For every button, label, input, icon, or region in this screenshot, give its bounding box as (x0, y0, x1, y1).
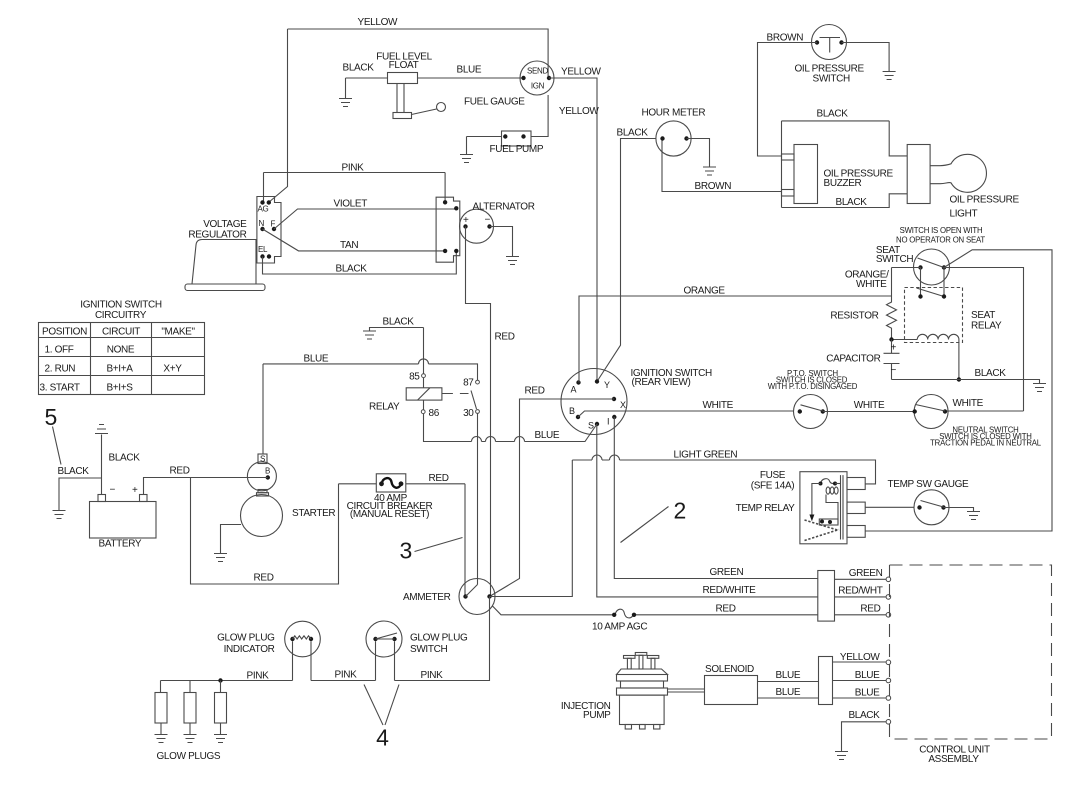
wire PINK (switch to ammeter) (395, 597, 490, 682)
svg-text:TAN: TAN (340, 240, 358, 251)
svg-text:RED: RED (495, 332, 515, 343)
svg-text:A: A (571, 385, 577, 395)
ground (glow plug 3) (214, 735, 227, 743)
svg-text:FLOAT: FLOAT (389, 60, 419, 71)
svg-text:PINK: PINK (421, 670, 444, 681)
wire VIOLET (F terminal to alternator) (274, 199, 456, 230)
temp relay coil (826, 487, 838, 524)
svg-text:(REAR VIEW): (REAR VIEW) (632, 377, 691, 388)
svg-text:GLOW PLUG: GLOW PLUG (410, 633, 468, 644)
ground (oil switch) (883, 72, 896, 80)
wire BLUE (solenoid bottom) (758, 687, 819, 698)
svg-text:YELLOW: YELLOW (559, 106, 599, 117)
svg-text:CIRCUITRY: CIRCUITRY (95, 310, 147, 321)
svg-text:FUEL GAUGE: FUEL GAUGE (464, 97, 525, 108)
svg-text:ORANGE: ORANGE (684, 286, 726, 297)
voltage regulator body (185, 219, 265, 291)
svg-text:BLUE: BLUE (535, 430, 560, 441)
label WHITE right of neutral switch (953, 398, 984, 409)
svg-text:X: X (620, 400, 626, 410)
relay (369, 328, 479, 420)
connector block (solenoid harness) (819, 657, 833, 705)
callout 5 (45, 404, 62, 465)
svg-text:SOLENOID: SOLENOID (705, 664, 754, 675)
resistor (830, 268, 896, 340)
seat relay contacts (917, 268, 947, 299)
seat relay (dashed box) (905, 288, 1002, 343)
oil pressure buzzer (782, 145, 894, 204)
ground (relay 85) (363, 331, 376, 339)
ground (control unit) (835, 752, 848, 760)
svg-text:B+I+S: B+I+S (106, 383, 133, 394)
glow plug 1 (155, 681, 167, 735)
node Y (595, 379, 610, 390)
svg-text:WHITE: WHITE (856, 279, 887, 290)
svg-text:WHITE: WHITE (854, 400, 885, 411)
svg-text:−: − (110, 485, 116, 496)
voltage regulator connector (left) (257, 197, 281, 264)
glow plug indicator (217, 621, 320, 680)
svg-text:STARTER: STARTER (292, 508, 335, 519)
wire buzzer to light top (889, 121, 907, 156)
svg-text:3: 3 (400, 538, 413, 564)
svg-text:FUSE: FUSE (760, 470, 786, 481)
ammeter (403, 579, 495, 615)
starter solenoid (247, 364, 276, 496)
svg-text:PINK: PINK (342, 163, 365, 174)
node I (607, 415, 617, 427)
oil pressure light (907, 145, 1019, 220)
ground (battery negative) (95, 425, 108, 434)
svg-text:BLACK: BLACK (848, 710, 880, 721)
svg-text:WHITE: WHITE (703, 400, 734, 411)
svg-text:RED: RED (429, 473, 449, 484)
wire YELLOW (ignition feed, top) (288, 17, 549, 78)
wire seat switch to temp relay (outer loop) (865, 250, 1052, 531)
wire RED (battery to circuit breaker loop) (191, 478, 339, 585)
solenoid (705, 664, 758, 705)
svg-text:VIOLET: VIOLET (334, 199, 368, 210)
svg-text:BLACK: BLACK (617, 128, 649, 139)
svg-text:"MAKE": "MAKE" (161, 327, 195, 338)
fuel level float (376, 52, 445, 119)
wire BLACK (buzzer top) (782, 109, 890, 208)
svg-text:B+I+A: B+I+A (106, 364, 133, 375)
svg-text:AMMETER: AMMETER (403, 592, 451, 603)
temp relay (736, 470, 866, 544)
svg-text:TRACTION PEDAL IN NEUTRAL: TRACTION PEDAL IN NEUTRAL (930, 439, 1042, 448)
svg-text:RED/WHITE: RED/WHITE (703, 585, 757, 596)
hour meter (642, 108, 706, 157)
svg-text:LIGHT: LIGHT (950, 209, 978, 220)
svg-text:WITH P.T.O. DISINGAGED: WITH P.T.O. DISINGAGED (768, 382, 858, 391)
svg-text:GREEN: GREEN (710, 567, 744, 578)
wire ORANGE/WHITE (seat switch to resistor node) (845, 268, 921, 291)
callout 2 (621, 498, 687, 543)
svg-text:TEMP RELAY: TEMP RELAY (736, 503, 796, 514)
wire BLACK (relay 85 ground) (370, 317, 424, 331)
node X (612, 397, 626, 410)
ground (alternator) (506, 257, 519, 265)
svg-text:2: 2 (674, 498, 687, 524)
wire BLACK (seat relay to ground) (892, 368, 1040, 384)
svg-text:RELAY: RELAY (369, 402, 400, 413)
svg-text:FUEL PUMP: FUEL PUMP (490, 144, 544, 155)
svg-text:YELLOW: YELLOW (358, 17, 398, 28)
wire BLACK (battery negative to ground) (102, 435, 141, 495)
temp sw gauge (888, 479, 970, 525)
ground (glow plug 2) (184, 735, 197, 743)
injection pump (561, 653, 668, 730)
wire yellow drop to regulator AG pin (269, 29, 288, 203)
svg-text:4: 4 (376, 725, 389, 751)
wire RED (alternator + down to ammeter) (466, 227, 515, 597)
svg-text:1. OFF: 1. OFF (45, 345, 74, 356)
wire BLACK (control unit ground) (842, 710, 891, 752)
svg-text:RED: RED (525, 386, 545, 397)
svg-text:RESISTOR: RESISTOR (830, 311, 878, 322)
svg-text:SEND: SEND (527, 67, 549, 76)
wire LIGHT GREEN (ammeter to temp relay) (490, 450, 876, 597)
svg-text:BLACK: BLACK (58, 466, 90, 477)
node B (569, 406, 580, 419)
svg-text:85: 85 (409, 372, 420, 383)
svg-text:PINK: PINK (335, 670, 358, 681)
fuel gauge (464, 61, 554, 108)
wire YELLOW to control unit (833, 652, 891, 665)
wire temp relay to temp gauge (865, 506, 914, 508)
ignition switch (rear view) (561, 368, 712, 435)
svg-text:BLUE: BLUE (776, 670, 801, 681)
ground (starter) (214, 554, 227, 562)
svg-text:GLOW PLUG: GLOW PLUG (217, 633, 275, 644)
svg-text:I: I (607, 417, 609, 427)
wire BLUE to control unit (lower) (833, 688, 891, 701)
svg-text:IGN: IGN (531, 82, 545, 91)
svg-text:IGNITION SWITCH: IGNITION SWITCH (80, 300, 162, 311)
svg-text:RED: RED (716, 604, 736, 615)
wire PINK (regulator to alternator connector) (264, 163, 446, 203)
wire GREEN (ignition I to control unit) (614, 417, 818, 579)
svg-text:3. START: 3. START (40, 383, 80, 394)
wire RED (battery + to starter B) (144, 466, 268, 495)
svg-text:BLUE: BLUE (776, 687, 801, 698)
svg-text:BLUE: BLUE (457, 65, 482, 76)
label glow plugs (157, 751, 221, 762)
svg-text:(SFE 14A): (SFE 14A) (751, 481, 795, 492)
alternator (460, 202, 535, 244)
callout 4 (364, 685, 399, 751)
svg-text:LIGHT GREEN: LIGHT GREEN (674, 450, 738, 461)
control unit assembly (dashed box) (890, 565, 1052, 765)
wire BLACK (fuel sender ground) (343, 63, 388, 99)
svg-text:BLACK: BLACK (383, 317, 415, 328)
wire ORANGE (seat circuit to ignition A) (579, 286, 892, 383)
svg-text:RED/WHT: RED/WHT (838, 586, 882, 597)
svg-text:YELLOW: YELLOW (840, 652, 880, 663)
svg-text:+: + (891, 343, 897, 354)
svg-text:SWITCH: SWITCH (813, 74, 850, 85)
svg-text:+: + (132, 485, 138, 496)
svg-text:B: B (265, 467, 270, 476)
svg-text:GLOW PLUGS: GLOW PLUGS (157, 751, 221, 762)
svg-text:NONE: NONE (107, 345, 135, 356)
node A (571, 380, 581, 394)
seat relay coil (889, 334, 961, 381)
svg-text:BUZZER: BUZZER (824, 178, 862, 189)
svg-text:SWITCH: SWITCH (410, 644, 447, 655)
ground (hour meter) (703, 167, 716, 175)
svg-text:2. RUN: 2. RUN (45, 364, 76, 375)
wire alternator minus to ground (490, 227, 513, 257)
svg-text:SWITCH IS OPEN WITH: SWITCH IS OPEN WITH (900, 226, 983, 235)
wire RED with 10 AMP AGC fuse (ammeter to control unit) (493, 604, 818, 633)
wire GREEN stub to control unit (835, 568, 891, 582)
svg-text:CIRCUIT: CIRCUIT (102, 327, 140, 338)
wire breaker to ammeter (464, 484, 466, 597)
wire PINK (glow plugs to indicator) (161, 671, 293, 683)
svg-text:BLACK: BLACK (109, 453, 141, 464)
wire BLUE to control unit (upper) (833, 670, 891, 683)
wire temp gauge to ground (944, 508, 974, 512)
svg-text:ASSEMBLY: ASSEMBLY (928, 754, 979, 765)
temp relay fuse (819, 479, 841, 486)
ground (glow plug 1) (155, 735, 168, 743)
wire BLACK (chassis ground lead) (58, 466, 102, 511)
svg-text:RED: RED (170, 466, 190, 477)
wire BROWN (hour meter to buzzer) (662, 139, 782, 193)
svg-text:BLACK: BLACK (836, 197, 868, 208)
svg-text:Y: Y (604, 380, 610, 390)
svg-text:NO OPERATOR ON SEAT: NO OPERATOR ON SEAT (896, 236, 985, 245)
injection pump link (668, 689, 705, 692)
svg-text:CAPACITOR: CAPACITOR (826, 354, 880, 365)
wire BROWN (oil switch to buzzer) (758, 33, 818, 157)
svg-text:10 AMP AGC: 10 AMP AGC (592, 622, 647, 633)
wire hour meter to ground (687, 139, 710, 168)
ground (seat relay) (1033, 384, 1046, 392)
svg-text:TEMP SW GAUGE: TEMP SW GAUGE (888, 479, 970, 490)
svg-text:BLUE: BLUE (855, 688, 880, 699)
wire WHITE (PTO to neutral switch) (823, 400, 915, 412)
svg-text:ALTERNATOR: ALTERNATOR (473, 202, 535, 213)
wire oil switch to ground (842, 43, 890, 72)
svg-text:BLACK: BLACK (343, 63, 375, 74)
svg-text:N: N (259, 219, 265, 228)
wire starter to ground (221, 525, 242, 554)
svg-text:BLACK: BLACK (817, 109, 849, 120)
svg-text:AG: AG (258, 205, 269, 214)
wire BLACK (regulator EL to alternator) (263, 251, 457, 275)
svg-text:BROWN: BROWN (767, 33, 804, 44)
PTO switch (768, 369, 858, 429)
svg-text:INDICATOR: INDICATOR (224, 644, 275, 655)
wire seat switch to neutral switch (right loop) (944, 268, 1024, 412)
svg-text:BLUE: BLUE (304, 354, 329, 365)
svg-text:HOUR METER: HOUR METER (642, 108, 706, 119)
svg-text:PUMP: PUMP (583, 710, 611, 721)
ground (chassis) (53, 511, 66, 519)
oil pressure switch (795, 25, 865, 85)
wire RED/WHT stub to control unit (835, 586, 891, 600)
wire RED/WHITE (ignition S to control unit) (597, 424, 818, 597)
svg-text:RELAY: RELAY (971, 321, 1002, 332)
capacitor (826, 340, 899, 380)
svg-text:+: + (463, 215, 469, 226)
svg-text:SEAT: SEAT (971, 310, 995, 321)
wire BLUE (relay 85 feed from starter S) (263, 354, 478, 381)
svg-text:POSITION: POSITION (42, 327, 87, 338)
svg-text:X+Y: X+Y (163, 364, 182, 375)
svg-text:BROWN: BROWN (695, 181, 732, 192)
svg-text:5: 5 (45, 404, 58, 430)
connector block (gauge harness) (818, 571, 835, 622)
svg-text:BLACK: BLACK (336, 264, 368, 275)
svg-text:RED: RED (254, 573, 274, 584)
svg-text:SWITCH: SWITCH (876, 254, 913, 265)
svg-text:BLUE: BLUE (855, 670, 880, 681)
svg-text:PINK: PINK (247, 671, 270, 682)
wire TAN (N terminal to alternator) (263, 229, 446, 251)
callout 3 (400, 538, 463, 564)
wire BLACK (hour meter to ignition Y) (597, 128, 656, 382)
node S (588, 421, 599, 431)
temp relay contacts (805, 519, 840, 541)
starter motor (241, 495, 336, 537)
wire BLACK (buzzer bottom to light) (782, 194, 908, 208)
svg-text:BATTERY: BATTERY (99, 539, 142, 550)
svg-text:(MANUAL RESET): (MANUAL RESET) (350, 509, 429, 520)
svg-text:86: 86 (429, 408, 440, 419)
glow plug switch (366, 621, 468, 681)
wire RED stub to control unit (835, 604, 891, 618)
wire relay 30 to ammeter needle (477, 413, 479, 584)
wire RED (ignition X to ammeter) (490, 386, 615, 597)
svg-text:YELLOW: YELLOW (561, 67, 601, 78)
svg-text:WHITE: WHITE (953, 398, 984, 409)
wire BLUE (relay 86 to ignition S) (424, 413, 598, 441)
fuel pump (467, 95, 549, 155)
wire BLUE (sender to gauge) (418, 65, 524, 79)
svg-text:30: 30 (463, 408, 474, 419)
svg-text:VOLTAGE: VOLTAGE (203, 219, 247, 230)
wire BLUE (solenoid top) (758, 670, 819, 682)
ground (fuel sender) (339, 99, 352, 107)
svg-text:REGULATOR: REGULATOR (188, 230, 246, 241)
glow plug 3 (215, 681, 227, 735)
svg-text:B: B (569, 406, 575, 416)
wire PINK (indicator to switch) (311, 670, 376, 681)
ground (temp gauge) (967, 512, 980, 520)
svg-text:−: − (891, 365, 897, 376)
ignition switch circuitry table (39, 300, 205, 395)
svg-text:87: 87 (463, 378, 474, 389)
svg-text:BLACK: BLACK (975, 368, 1007, 379)
seat switch (876, 226, 985, 285)
glow plug 2 (184, 681, 196, 735)
wire YELLOW (gauge IGN to ignition switch Y) (549, 67, 601, 382)
circuit breaker 40A (339, 473, 466, 520)
temp relay heater arrow (809, 484, 820, 522)
svg-text:GREEN: GREEN (849, 568, 883, 579)
svg-text:OIL PRESSURE: OIL PRESSURE (950, 195, 1020, 206)
wire WHITE (ignition B to PTO switch) (578, 400, 794, 417)
battery (90, 485, 157, 550)
ground (fuel pump) (460, 155, 473, 163)
svg-text:−: − (485, 215, 491, 226)
svg-text:RED: RED (860, 604, 880, 615)
alternator connector (right) (436, 197, 460, 262)
svg-text:EL: EL (258, 245, 268, 254)
neutral switch (913, 395, 1042, 448)
